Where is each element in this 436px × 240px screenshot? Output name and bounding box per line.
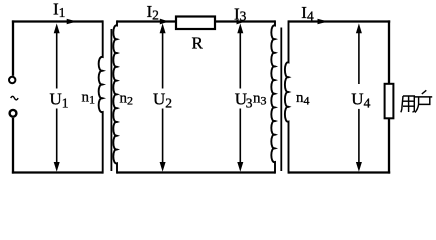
svg-text:n1: n1 xyxy=(82,90,96,107)
wire: right edge lower (from load) xyxy=(388,119,390,174)
wire: right loop bottom xyxy=(289,171,391,173)
wire: middle loop bottom xyxy=(117,171,275,173)
AC source terminal circle (bottom) xyxy=(10,110,17,117)
svg-text:n3: n3 xyxy=(253,91,267,108)
current arrow I3 xyxy=(237,20,244,25)
voltage arrow U1 xyxy=(56,28,58,167)
AC source terminal circle (top) xyxy=(9,77,15,83)
resistor R xyxy=(176,17,215,30)
voltage arrow U4 xyxy=(358,28,360,167)
winding n4 (secondary 2, 4 turns) xyxy=(285,20,289,173)
wire: middle loop top-left (n2 to R) xyxy=(117,20,176,22)
current arrow I1 xyxy=(67,19,77,25)
wire: middle loop top-right (R to n3) xyxy=(215,20,275,22)
wire: right edge upper (to load) xyxy=(388,20,390,84)
transformer 2 core xyxy=(280,28,282,172)
wire: left edge upper (to source) xyxy=(12,20,14,75)
voltage arrow U2 xyxy=(162,28,164,167)
load box (user) xyxy=(385,84,394,119)
transformer 1 core xyxy=(110,29,112,171)
current arrow I2 xyxy=(160,19,169,25)
current arrow I4 xyxy=(318,19,329,25)
svg-text:n2: n2 xyxy=(120,91,134,108)
wire: right loop top xyxy=(289,20,391,22)
winding n2 (secondary, 10 turns) xyxy=(113,20,117,173)
svg-text:n4: n4 xyxy=(296,90,310,108)
winding n3 (primary 2, 10 turns) xyxy=(271,20,275,173)
label 用户 (user load), hand-drawn glyphs xyxy=(401,90,432,112)
wire: left loop top xyxy=(12,20,103,22)
svg-text:R: R xyxy=(192,33,204,52)
wire: left edge lower (from source) xyxy=(12,118,14,174)
AC source tilde symbol xyxy=(11,96,18,100)
wire: left loop bottom xyxy=(12,171,103,173)
winding n1 (primary, 4 turns) xyxy=(99,20,103,173)
voltage arrow U3 xyxy=(239,28,241,167)
